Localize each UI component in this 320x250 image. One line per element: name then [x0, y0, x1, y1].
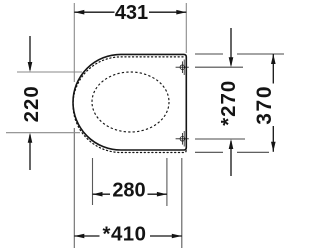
extension line right vertical x=186.3 top: [185, 3, 187, 53]
extension line 370 top horizontal y=54: [195, 53, 284, 55]
svg-text:*410: *410: [103, 223, 147, 245]
svg-text:370: 370: [253, 85, 276, 125]
inner opening dashed ellipse: [92, 72, 169, 132]
extension line 280 right vertical x=166.9: [166, 158, 168, 206]
dimension 220 arrow top: [29, 36, 31, 70]
extension line 270 top horizontal y=67.2: [195, 66, 243, 68]
hinge flap edge bottom: [183, 131, 185, 147]
svg-text:431: 431: [115, 2, 148, 24]
extension line 280 left vertical x=92.5: [92, 158, 94, 205]
extension line 370 bottom horizontal y=152.3: [195, 151, 269, 153]
seat ring dotted outline: [73, 57, 186, 153]
svg-text:280: 280: [112, 180, 145, 202]
dimension 270 arrow top: [230, 28, 232, 65]
dimension 280 arrowhead left: [93, 192, 103, 197]
dimension 370 arrowhead bottom: [271, 142, 276, 152]
dimension 370 line: [272, 54, 274, 152]
hinge bolt top: [176, 61, 189, 73]
svg-text:220: 220: [21, 85, 43, 122]
extension line 220 bottom horizontal y=132.7: [6, 132, 80, 134]
dimension 370 arrowhead top: [271, 54, 276, 64]
hinge bolt bottom: [176, 133, 189, 145]
dimension 220 arrow bottom: [29, 135, 31, 170]
dimension 410 arrowhead left: [74, 234, 84, 239]
dimension 270 arrow bottom: [230, 141, 232, 176]
dimension 431 arrowhead right: [176, 10, 186, 15]
seat cover solid outline: [73, 54, 186, 150]
dimension 410 arrowhead right: [172, 234, 182, 239]
extension line left vertical x=74 lower: [73, 128, 75, 248]
hinge flap edge top: [183, 60, 185, 76]
dimension 280 arrowhead right: [157, 192, 167, 197]
dimension 431 arrowhead left: [74, 10, 84, 15]
svg-text:*270: *270: [218, 80, 240, 126]
dimension 410 line: [74, 235, 182, 237]
dimension 280 line: [93, 193, 167, 195]
extension line left vertical x=74 upper: [73, 3, 75, 82]
dimension 431 line: [74, 11, 186, 13]
extension line 410 right vertical x=181.8: [181, 158, 183, 248]
extension line 220 top horizontal y=72: [17, 71, 82, 73]
extension line 270 bottom horizontal y=139: [195, 138, 245, 140]
